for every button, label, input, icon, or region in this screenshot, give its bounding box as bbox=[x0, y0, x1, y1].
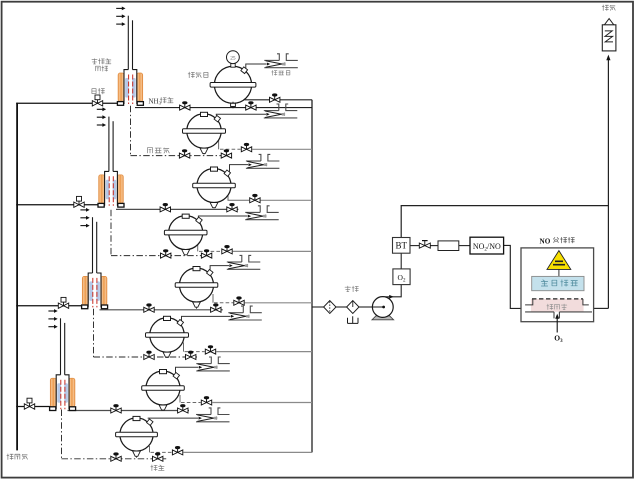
wire sphere5 drain to bus bbox=[212, 294, 214, 303]
valve sphere7 drain bbox=[201, 397, 211, 405]
valve purge gun2 bbox=[74, 196, 84, 207]
valve line4 A bbox=[161, 250, 171, 258]
label 储气罐 bbox=[188, 72, 194, 78]
wire purge gun1 bbox=[16, 102, 118, 104]
label 仪用气 bbox=[7, 454, 13, 460]
wire sphere3 to ejector3 bbox=[230, 165, 249, 172]
vessel sphere4 bbox=[169, 216, 203, 250]
sample pump bbox=[372, 316, 394, 320]
vessel sphere6 bbox=[150, 318, 184, 352]
valve line6 A bbox=[144, 351, 154, 359]
wire gun3 outlet line bbox=[100, 309, 223, 311]
wire sphere2 drain to bus bbox=[218, 139, 220, 150]
filter diamond 2 (干燥) bbox=[347, 301, 359, 314]
wire sphere7 drain to bus bbox=[179, 395, 181, 403]
valve line8 A bbox=[111, 453, 121, 461]
wire gun1 dashdot drop + raw flue gas line bbox=[130, 106, 132, 156]
label 抽烟器 bbox=[272, 70, 277, 75]
valve sphere6 drain bbox=[205, 346, 215, 354]
photomultiplier box (光电倍增) bbox=[532, 276, 584, 290]
vessel sphere5 bbox=[180, 268, 214, 302]
wire tank right outlet to bus bbox=[245, 99, 313, 101]
valve sphere8 drain bbox=[172, 447, 182, 455]
valve line7 A bbox=[111, 405, 121, 413]
wire purge gun4 bbox=[16, 406, 50, 408]
valve raw-gas line A bbox=[179, 150, 189, 158]
wire sphere6 drain to bus bbox=[183, 343, 185, 352]
wire gun3 dashdot drop + line6 bbox=[93, 309, 95, 357]
valve line7 B bbox=[178, 405, 188, 413]
wire NH3 catalysis line gun1 to bus bbox=[135, 107, 312, 109]
valve sphere3 drain bbox=[250, 194, 260, 202]
wire sphere4 to ejector4 bbox=[198, 216, 247, 217]
vessel sphere8 bbox=[120, 418, 153, 451]
valve sphere2 drain bbox=[241, 143, 251, 151]
valve NH3 line A bbox=[180, 102, 190, 110]
wire gun4 outlet line bbox=[68, 410, 190, 412]
pressure gauge on tank bbox=[231, 64, 235, 68]
sampling gun 1 (双路采样枪) bbox=[127, 16, 129, 70]
wire gun2 outlet line bbox=[116, 208, 238, 210]
cell bottom shelf bbox=[525, 312, 592, 319]
wire tank to ejector1 bbox=[246, 64, 267, 69]
wire sphere2 to ejector2 bbox=[216, 114, 266, 115]
valve tank outlet bbox=[270, 94, 280, 102]
box BT bbox=[393, 238, 411, 254]
wire sphere5 to ejector5 bbox=[210, 266, 229, 270]
wire purge gun2 bbox=[16, 204, 99, 206]
wire sphere4 drain to bus bbox=[197, 243, 199, 252]
wire NOx/NO to reaction cell bbox=[504, 245, 526, 308]
drain trap symbol bbox=[348, 316, 359, 323]
wire pump outlet to O2 bbox=[383, 285, 401, 297]
label 排气 bbox=[602, 5, 608, 11]
label 双路采样枪 bbox=[92, 59, 97, 64]
label 干燥 bbox=[345, 286, 351, 292]
label 排污 bbox=[151, 465, 157, 471]
ejector 6 bbox=[228, 306, 261, 320]
svg-text:NO: NO bbox=[540, 237, 551, 245]
valve line8 B bbox=[153, 453, 163, 461]
ejector 2 bbox=[264, 104, 298, 118]
vessel gas tank (储气罐) bbox=[214, 66, 251, 103]
valve purge gun1 bbox=[92, 95, 102, 106]
wire sphere7 to ejector7 bbox=[176, 367, 199, 373]
wire O2 to BT bbox=[400, 253, 402, 269]
wire gun4 dashdot drop + drain line8 bbox=[61, 410, 63, 459]
label 吹扫 bbox=[92, 89, 96, 94]
wire reaction cell outlet to exhaust riser bbox=[594, 307, 609, 309]
valve line3 B bbox=[227, 204, 237, 212]
ejector 3 bbox=[246, 154, 280, 168]
vessel sphere7 bbox=[146, 371, 180, 405]
box NOx/NO converter bbox=[470, 237, 504, 254]
reaction cell (反应池) bbox=[531, 299, 584, 312]
node right collection bus bbox=[311, 100, 313, 453]
svg-text:BT: BT bbox=[395, 241, 407, 251]
wire sphere6 to ejector6 bbox=[182, 316, 231, 321]
valve line5 B bbox=[211, 304, 221, 312]
valve purge gun3 bbox=[58, 297, 68, 308]
wire bus to filter line bbox=[312, 306, 324, 308]
wire sphere3 drain to bus bbox=[228, 196, 249, 201]
wire sphere8 to ejector8 bbox=[148, 417, 198, 420]
flowmeter bbox=[438, 241, 459, 251]
O3 inlet arrow bbox=[556, 315, 558, 332]
ejector 5 bbox=[227, 255, 260, 269]
filter diamond 1 bbox=[324, 301, 336, 314]
instrument air bus (仪用气) bbox=[16, 103, 18, 451]
valve line6 B bbox=[186, 351, 196, 359]
valve raw-gas line B bbox=[221, 150, 231, 158]
valve line4 B bbox=[201, 250, 211, 258]
wire purge gun3 bbox=[16, 305, 82, 307]
needle valve after BT bbox=[419, 241, 430, 249]
ejector 1 (抽烟器) bbox=[264, 54, 298, 68]
wire BT to needle valve to flowmeter to NOx box bbox=[410, 245, 419, 247]
valve line3 A bbox=[160, 204, 170, 212]
tank bottom nozzle bbox=[231, 103, 236, 106]
wire gun2 dashdot drop + line4 bbox=[110, 210, 112, 256]
high voltage warning triangle bbox=[547, 251, 571, 270]
sampling gun 2 bbox=[108, 117, 110, 172]
exhaust silencer stack (排气) bbox=[602, 25, 616, 51]
label 原烟气 bbox=[147, 148, 152, 153]
valve NH3 line B bbox=[246, 102, 256, 110]
NO analyzer enclosure bbox=[521, 248, 594, 322]
sampling gun 4 bbox=[60, 318, 62, 375]
valve sphere5 drain bbox=[234, 297, 244, 305]
ejector 8 bbox=[196, 408, 230, 422]
valve line5 A bbox=[144, 304, 154, 312]
wire BT vent to exhaust riser bbox=[401, 206, 608, 238]
svg-text:25: 25 bbox=[230, 55, 236, 61]
valve sphere4 drain bbox=[222, 246, 232, 254]
valve purge gun4 bbox=[24, 398, 34, 409]
vessel sphere2 bbox=[187, 114, 221, 148]
wire sphere8 drain to bus bbox=[149, 446, 151, 452]
ejector 4 bbox=[245, 206, 279, 220]
svg-text:NO2/NO: NO2/NO bbox=[473, 242, 501, 252]
vessel sphere3 bbox=[197, 169, 231, 203]
ejector 7 bbox=[196, 357, 230, 371]
box O2 bbox=[393, 269, 410, 285]
sampling gun 3 bbox=[92, 217, 94, 273]
